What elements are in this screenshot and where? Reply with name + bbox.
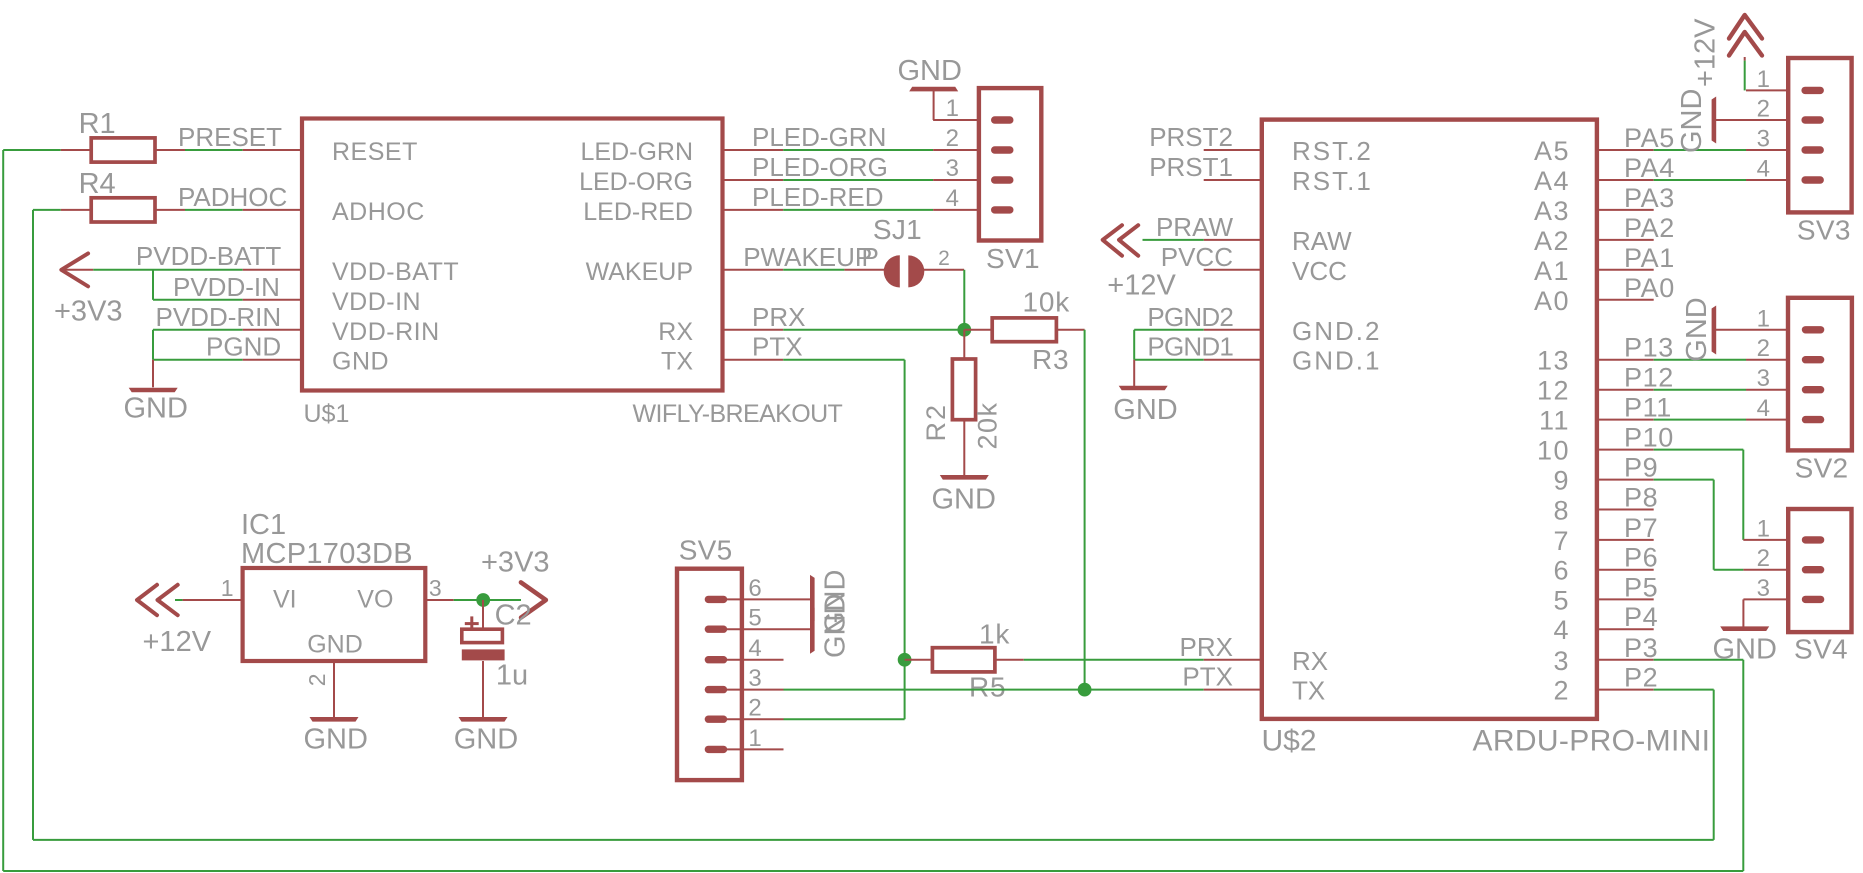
svg-text:SV3: SV3 <box>1797 215 1851 246</box>
svg-text:4: 4 <box>1553 615 1570 645</box>
svg-text:R5: R5 <box>969 672 1006 703</box>
svg-text:VO: VO <box>357 586 393 614</box>
svg-text:R3: R3 <box>1032 344 1069 375</box>
svg-text:8: 8 <box>1553 496 1570 526</box>
svg-text:2: 2 <box>748 695 761 722</box>
svg-text:PVDD-RIN: PVDD-RIN <box>156 302 282 332</box>
svg-text:LED-ORG: LED-ORG <box>579 168 693 196</box>
svg-text:4: 4 <box>748 635 761 662</box>
svg-text:1: 1 <box>946 95 959 122</box>
svg-text:IC1: IC1 <box>241 509 286 541</box>
svg-text:2: 2 <box>1553 676 1570 706</box>
svg-text:GND: GND <box>820 594 852 658</box>
svg-text:P10: P10 <box>1624 423 1674 453</box>
svg-text:RX: RX <box>1292 646 1328 676</box>
svg-text:MCP1703DB: MCP1703DB <box>241 538 413 570</box>
svg-text:PA3: PA3 <box>1624 183 1675 213</box>
svg-text:P12: P12 <box>1624 363 1674 393</box>
svg-text:WAKEUP: WAKEUP <box>586 258 693 286</box>
svg-text:10k: 10k <box>1023 286 1071 317</box>
svg-text:PRST2: PRST2 <box>1149 122 1233 152</box>
svg-text:PVCC: PVCC <box>1161 242 1233 272</box>
svg-text:2: 2 <box>304 674 330 687</box>
svg-text:GND: GND <box>932 484 996 516</box>
svg-text:A3: A3 <box>1534 196 1570 226</box>
svg-text:GND.2: GND.2 <box>1292 316 1381 346</box>
svg-text:PLED-RED: PLED-RED <box>752 182 883 212</box>
svg-text:SV5: SV5 <box>679 534 733 565</box>
svg-text:GND.1: GND.1 <box>1292 346 1381 376</box>
svg-text:P13: P13 <box>1624 333 1674 363</box>
svg-text:SV1: SV1 <box>986 243 1040 274</box>
svg-text:PWAKEUP: PWAKEUP <box>743 242 872 272</box>
svg-text:VCC: VCC <box>1292 256 1347 286</box>
svg-text:+12V: +12V <box>1107 269 1176 301</box>
svg-text:R1: R1 <box>79 108 116 140</box>
svg-text:7: 7 <box>1553 526 1570 556</box>
svg-text:13: 13 <box>1537 346 1570 376</box>
svg-text:TX: TX <box>1292 676 1325 706</box>
svg-text:4: 4 <box>1757 156 1770 183</box>
svg-text:12: 12 <box>1537 376 1570 406</box>
svg-text:3: 3 <box>1553 646 1570 676</box>
svg-text:6: 6 <box>1553 556 1570 586</box>
svg-text:5: 5 <box>1553 585 1570 615</box>
svg-text:GND: GND <box>898 55 962 87</box>
svg-text:SV4: SV4 <box>1794 634 1848 665</box>
svg-text:4: 4 <box>1757 395 1770 422</box>
svg-text:GND: GND <box>307 630 363 658</box>
svg-text:P11: P11 <box>1624 393 1672 423</box>
svg-text:2: 2 <box>1757 96 1770 123</box>
svg-text:3: 3 <box>1757 365 1770 392</box>
svg-text:PGND1: PGND1 <box>1147 332 1233 362</box>
svg-text:PLED-ORG: PLED-ORG <box>752 152 888 182</box>
svg-text:3: 3 <box>429 575 442 601</box>
svg-text:U$2: U$2 <box>1262 725 1317 758</box>
svg-text:PGND: PGND <box>206 332 281 362</box>
svg-text:GND: GND <box>1113 394 1177 426</box>
svg-text:LED-RED: LED-RED <box>583 198 693 226</box>
svg-text:R4: R4 <box>79 168 116 200</box>
svg-text:PRESET: PRESET <box>178 122 282 152</box>
svg-text:2: 2 <box>946 125 959 152</box>
svg-text:1k: 1k <box>979 619 1010 650</box>
svg-text:PVDD-BATT: PVDD-BATT <box>136 241 282 271</box>
svg-text:P2: P2 <box>1624 663 1658 693</box>
svg-text:PVDD-IN: PVDD-IN <box>173 272 280 302</box>
svg-text:1: 1 <box>1757 66 1770 93</box>
svg-text:+12V: +12V <box>143 626 212 658</box>
svg-text:VDD-BATT: VDD-BATT <box>332 258 459 286</box>
svg-text:WIFLY-BREAKOUT: WIFLY-BREAKOUT <box>633 400 843 428</box>
svg-text:PA0: PA0 <box>1624 273 1675 303</box>
svg-text:9: 9 <box>1553 466 1570 496</box>
svg-text:P7: P7 <box>1624 513 1658 543</box>
svg-text:3: 3 <box>946 155 959 182</box>
svg-text:PGND2: PGND2 <box>1147 302 1233 332</box>
svg-text:PA2: PA2 <box>1624 213 1675 243</box>
svg-text:RX: RX <box>658 318 693 346</box>
svg-text:PADHOC: PADHOC <box>178 182 287 212</box>
svg-text:RST.2: RST.2 <box>1292 136 1373 166</box>
svg-text:PRX: PRX <box>1180 632 1233 662</box>
svg-text:GND: GND <box>1681 297 1713 361</box>
svg-text:RESET: RESET <box>332 138 418 166</box>
svg-text:GND: GND <box>124 393 188 425</box>
svg-text:ADHOC: ADHOC <box>332 198 425 226</box>
svg-text:LED-GRN: LED-GRN <box>580 138 693 166</box>
svg-text:1: 1 <box>748 725 761 752</box>
svg-text:PRST1: PRST1 <box>1149 152 1233 182</box>
svg-text:ARDU-PRO-MINI: ARDU-PRO-MINI <box>1473 725 1711 758</box>
svg-text:1u: 1u <box>496 660 528 692</box>
svg-text:PRX: PRX <box>752 302 805 332</box>
svg-text:GND: GND <box>1676 89 1708 153</box>
svg-text:PRAW: PRAW <box>1156 212 1233 242</box>
svg-text:+3V3: +3V3 <box>481 547 550 579</box>
svg-text:PA5: PA5 <box>1624 123 1675 153</box>
svg-text:A0: A0 <box>1534 286 1570 316</box>
svg-text:A1: A1 <box>1534 256 1570 286</box>
svg-text:VDD-RIN: VDD-RIN <box>332 318 440 346</box>
svg-text:P5: P5 <box>1624 572 1658 602</box>
svg-text:6: 6 <box>748 575 761 602</box>
svg-text:U$1: U$1 <box>304 400 350 428</box>
svg-text:+12V: +12V <box>1689 18 1721 87</box>
svg-text:2: 2 <box>1757 335 1770 362</box>
svg-text:P3: P3 <box>1624 633 1658 663</box>
svg-text:C2: C2 <box>495 599 532 631</box>
svg-text:GND: GND <box>304 724 368 756</box>
svg-text:GND: GND <box>1713 634 1777 666</box>
svg-text:1: 1 <box>1757 305 1770 332</box>
svg-text:SV2: SV2 <box>1795 453 1849 484</box>
svg-text:5: 5 <box>748 605 761 632</box>
svg-text:1: 1 <box>221 575 234 601</box>
svg-text:SJ1: SJ1 <box>873 214 922 245</box>
svg-text:1: 1 <box>1757 515 1770 542</box>
svg-text:A4: A4 <box>1534 166 1570 196</box>
svg-text:10: 10 <box>1537 436 1570 466</box>
svg-text:A2: A2 <box>1534 226 1570 256</box>
svg-text:11: 11 <box>1539 406 1570 436</box>
svg-text:GND: GND <box>332 348 389 376</box>
svg-text:P4: P4 <box>1624 602 1658 632</box>
svg-text:A5: A5 <box>1534 136 1570 166</box>
svg-text:3: 3 <box>748 665 761 692</box>
svg-text:3: 3 <box>1757 575 1770 602</box>
svg-text:VDD-IN: VDD-IN <box>332 288 421 316</box>
svg-text:VI: VI <box>273 586 297 614</box>
svg-text:R2: R2 <box>921 403 951 442</box>
svg-text:GND: GND <box>454 724 518 756</box>
svg-text:TX: TX <box>661 348 693 376</box>
svg-text:2: 2 <box>938 247 950 270</box>
svg-text:PLED-GRN: PLED-GRN <box>752 122 886 152</box>
svg-text:RST.1: RST.1 <box>1292 166 1373 196</box>
svg-text:P: P <box>862 242 879 272</box>
svg-text:PTX: PTX <box>1182 662 1233 692</box>
svg-text:PTX: PTX <box>752 332 803 362</box>
svg-text:20k: 20k <box>972 401 1002 449</box>
svg-text:PA4: PA4 <box>1624 153 1675 183</box>
svg-text:3: 3 <box>1757 126 1770 153</box>
svg-text:PA1: PA1 <box>1624 243 1675 273</box>
svg-text:P6: P6 <box>1624 543 1658 573</box>
svg-text:+3V3: +3V3 <box>54 295 123 327</box>
svg-text:4: 4 <box>946 185 959 212</box>
svg-text:P8: P8 <box>1624 483 1658 513</box>
svg-text:P9: P9 <box>1624 453 1658 483</box>
svg-text:RAW: RAW <box>1292 226 1352 256</box>
svg-text:2: 2 <box>1757 545 1770 572</box>
